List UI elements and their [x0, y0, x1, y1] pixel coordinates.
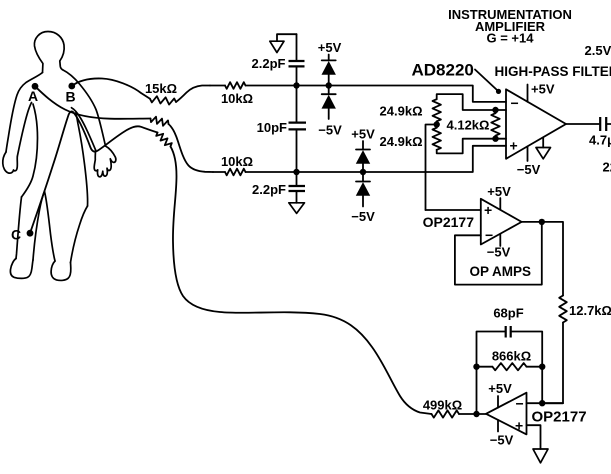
svg-text:+: + — [510, 138, 518, 154]
junction node 866k left — [473, 364, 479, 370]
output wire AD8220 — [566, 123, 599, 125]
wire lead 15k to top line — [176, 86, 210, 103]
svg-text:10kΩ: 10kΩ — [221, 154, 253, 169]
svg-text:10kΩ: 10kΩ — [221, 91, 253, 106]
svg-text:G = +14: G = +14 — [487, 31, 535, 46]
resistor 24.9k upper — [433, 99, 441, 121]
svg-text:AD8220: AD8220 — [412, 61, 474, 80]
svg-text:+: + — [484, 202, 492, 218]
resistor 4.12k — [495, 110, 497, 139]
svg-text:−: − — [516, 396, 524, 412]
svg-text:C: C — [11, 227, 21, 243]
resistor 15k zigzag in lead — [150, 96, 176, 104]
svg-text:499kΩ: 499kΩ — [423, 398, 462, 413]
svg-text:−5V: −5V — [318, 123, 342, 138]
svg-text:−5V: −5V — [487, 245, 511, 260]
svg-text:B: B — [66, 89, 76, 105]
+5V supply stub inv — [497, 396, 499, 408]
svg-text:12.7kΩ: 12.7kΩ — [569, 303, 611, 318]
op-amp U1 AD8220 triangle — [506, 89, 566, 159]
svg-text:2.5V: 2.5V — [585, 43, 611, 58]
diode D1 to +5V — [322, 55, 336, 120]
svg-text:24.9kΩ: 24.9kΩ — [380, 134, 423, 149]
wire lead C big loop to 499k — [171, 147, 432, 415]
capacitor 10pF — [289, 123, 307, 130]
resistor 499k — [432, 410, 460, 417]
electrode A — [32, 83, 39, 90]
+5V supply stub buffer — [499, 198, 501, 210]
diode D3 to +5V — [356, 141, 370, 207]
resistor zigzag in lead C — [156, 133, 172, 147]
torso left edge — [22, 104, 38, 197]
left hand — [3, 152, 18, 173]
wire lead A to bottom line — [169, 124, 214, 172]
resistor 866k — [477, 366, 543, 368]
junction node RG top — [492, 107, 498, 113]
electrode B — [68, 83, 75, 90]
wire buffer + input — [426, 209, 481, 211]
resistor 12.7k — [559, 296, 567, 323]
svg-text:−5V: −5V — [351, 209, 375, 224]
junction node RG bottom — [492, 136, 498, 142]
junction node 866k right — [539, 364, 545, 370]
left leg — [16, 197, 22, 259]
resistor 10k top — [225, 82, 246, 89]
human body outline — [3, 32, 116, 281]
resistor zigzag in lead A — [151, 117, 169, 126]
wire 499k to node — [459, 413, 486, 415]
svg-text:HIGH-PASS FILTER: HIGH-PASS FILTER — [495, 64, 611, 79]
svg-text:2.2pF: 2.2pF — [252, 56, 286, 71]
wire 12.7k down to inverting input — [542, 323, 563, 404]
junction node diode col1 — [326, 82, 332, 88]
ground flag inv op-amp — [533, 449, 548, 463]
junction node 24.9k midpoint — [434, 121, 440, 127]
right leg inner/outer — [45, 192, 56, 262]
bottom signal line — [213, 146, 506, 172]
resistor 10k bottom — [225, 169, 246, 176]
svg-text:−: − — [485, 227, 493, 243]
capacitor column vertical wires — [296, 34, 298, 203]
-5V supply stub AD8220 — [527, 147, 529, 162]
resistor 24.9k lower — [433, 128, 441, 150]
wire lead from electrode B to top line — [72, 78, 150, 98]
svg-text:4.12kΩ: 4.12kΩ — [447, 118, 490, 133]
svg-text:+5V: +5V — [531, 82, 555, 97]
junction node diode col2 — [360, 169, 366, 175]
wire lead from electrode A — [35, 86, 151, 119]
svg-text:2.2pF: 2.2pF — [252, 182, 286, 197]
svg-text:OP2177: OP2177 — [423, 214, 475, 230]
svg-text:68pF: 68pF — [493, 306, 523, 321]
+5V supply stub AD8220 — [527, 85, 529, 102]
svg-text:−: − — [511, 95, 519, 111]
capacitor 2.2pF top — [289, 61, 305, 66]
svg-text:OP AMPS: OP AMPS — [470, 264, 532, 279]
ground below bottom 2.2pF — [289, 203, 305, 214]
right hand with fingers — [94, 146, 116, 177]
svg-text:−5V: −5V — [517, 162, 541, 177]
junction node inverting input — [539, 400, 545, 406]
svg-text:22kΩ: 22kΩ — [603, 160, 611, 175]
junction node RLD output — [473, 411, 479, 417]
svg-text:OP2177: OP2177 — [532, 408, 587, 425]
capacitor 4.7uF output — [600, 117, 606, 131]
svg-text:+5V: +5V — [318, 40, 342, 55]
electrode C — [27, 230, 34, 237]
top signal line — [210, 86, 506, 102]
svg-text:+5V: +5V — [487, 184, 511, 199]
capacitor 2.2pF bottom — [289, 186, 306, 191]
ground flag AD8220 — [542, 138, 544, 148]
svg-text:10pF: 10pF — [257, 120, 287, 135]
diode D2 from -5V — [322, 95, 336, 109]
capacitor 68pF — [506, 326, 511, 338]
torso right edge — [76, 113, 88, 207]
svg-text:A: A — [28, 88, 38, 104]
diode D4 from -5V — [356, 182, 370, 196]
svg-text:4.7µF: 4.7µF — [589, 133, 611, 148]
-5V supply stub buffer — [499, 234, 501, 246]
feedback loop box OP AMPS — [455, 222, 542, 285]
svg-text:+5V: +5V — [351, 127, 375, 142]
-5V supply stub inv — [497, 420, 499, 432]
feedback loop wires — [477, 332, 543, 415]
output wire buffer — [522, 222, 563, 296]
junction node top line / column — [293, 82, 299, 88]
svg-text:24.9kΩ: 24.9kΩ — [380, 104, 423, 119]
ground flag top-left — [277, 34, 297, 41]
pointer line AD8220 to triangle — [475, 70, 497, 91]
wire lead from electrode C — [30, 111, 158, 233]
svg-text:−5V: −5V — [490, 433, 514, 448]
svg-text:+: + — [515, 418, 523, 434]
junction node bottom line / column — [293, 169, 299, 175]
gain network wiring — [426, 94, 507, 210]
op-amp U2 OP2177 buffer triangle — [481, 199, 522, 245]
svg-text:+5V: +5V — [488, 381, 512, 396]
svg-text:866kΩ: 866kΩ — [492, 349, 531, 364]
non-inverting input wire to ground — [527, 425, 541, 449]
op-amp U3 OP2177 inverting (points left) — [486, 393, 527, 435]
svg-text:15kΩ: 15kΩ — [145, 81, 177, 96]
junction node buffer output — [539, 219, 545, 225]
inverting input wire — [527, 402, 564, 404]
